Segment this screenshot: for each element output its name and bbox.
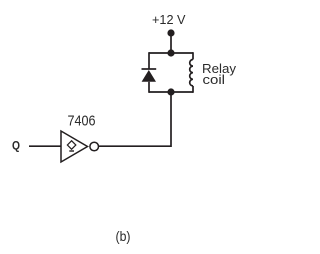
svg-text:(b): (b) <box>116 229 131 244</box>
svg-text:+12 V: +12 V <box>152 12 186 27</box>
svg-text:Q: Q <box>12 140 20 152</box>
svg-text:7406: 7406 <box>68 113 96 129</box>
svg-text:coil: coil <box>203 72 226 87</box>
